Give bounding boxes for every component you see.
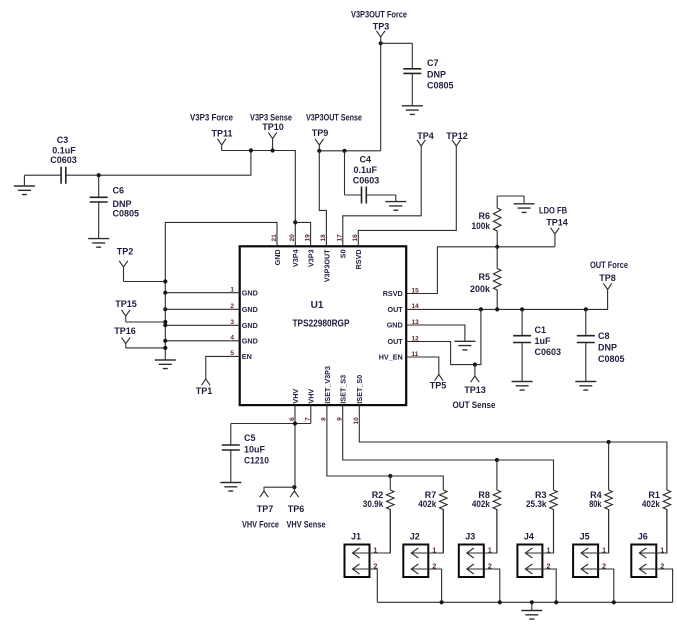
wire R4 top lead bbox=[608, 442, 610, 490]
svg-text:V3P3OUT Force: V3P3OUT Force bbox=[351, 10, 407, 20]
svg-text:TP14: TP14 bbox=[546, 218, 568, 228]
junction VHV/pin6 bbox=[293, 421, 297, 425]
svg-text:C0603: C0603 bbox=[535, 347, 562, 357]
J1 pin 2 arrow and wire to bottom bus bbox=[353, 564, 378, 602]
svg-text:TPS22980RGP: TPS22980RGP bbox=[293, 319, 350, 330]
svg-text:J1: J1 bbox=[351, 532, 361, 542]
wire C4 tap down bbox=[344, 151, 346, 195]
svg-text:S0: S0 bbox=[339, 249, 348, 258]
junction OUT/C1 bbox=[520, 307, 524, 311]
svg-text:OUT: OUT bbox=[388, 337, 404, 346]
svg-text:VHV: VHV bbox=[291, 389, 300, 404]
svg-text:V3P3: V3P3 bbox=[307, 249, 316, 267]
svg-text:C0805: C0805 bbox=[113, 209, 140, 219]
wire TP15 to bus bbox=[126, 321, 166, 323]
svg-text:C7: C7 bbox=[427, 58, 439, 68]
svg-text:2: 2 bbox=[374, 563, 378, 570]
svg-text:V3P4: V3P4 bbox=[291, 249, 300, 267]
resistor R3 25.3k bbox=[550, 490, 558, 553]
wire U1 pin9 ISET_S3 net bbox=[343, 405, 554, 490]
junction OUT/R5 bbox=[495, 307, 499, 311]
ground below C7 bbox=[402, 106, 423, 115]
svg-text:EN: EN bbox=[242, 352, 252, 361]
svg-text:C0805: C0805 bbox=[427, 81, 454, 91]
svg-text:402k: 402k bbox=[642, 499, 661, 509]
test point TP4 bbox=[417, 140, 426, 146]
wire U1 pin5 EN to TP1 bbox=[206, 356, 240, 379]
junction bottom bus x=556.2 bbox=[554, 600, 558, 604]
svg-text:ISET_V3P3: ISET_V3P3 bbox=[323, 366, 332, 404]
svg-text:TP13: TP13 bbox=[464, 385, 486, 395]
svg-text:C3: C3 bbox=[57, 135, 69, 145]
wire V3P3OUT rail bbox=[319, 150, 380, 152]
connector J1 body bbox=[345, 545, 370, 578]
svg-text:DNP: DNP bbox=[598, 343, 617, 353]
junction rail/C4 tap bbox=[342, 149, 346, 153]
junction ISET_V3P3/R2 bbox=[388, 474, 392, 478]
svg-text:OUT Sense: OUT Sense bbox=[453, 400, 496, 410]
resistor R5 200k bbox=[493, 247, 501, 310]
junction bus/TP16 bbox=[163, 346, 167, 350]
junction bus pin 4 bbox=[163, 339, 167, 343]
test point TP6 bbox=[290, 487, 299, 497]
svg-text:200k: 200k bbox=[470, 284, 491, 294]
wire TP3 to C7 bbox=[381, 42, 413, 44]
wire R2 top lead bbox=[389, 476, 391, 490]
wire TP4 to U1 pin17 S0 bbox=[343, 146, 421, 246]
svg-text:1: 1 bbox=[546, 547, 550, 554]
wire bus to U1 pin 3 bbox=[165, 324, 239, 326]
wire U1 pin6 VHV down bbox=[294, 405, 296, 487]
junction V3P3 vertical / pin19 branch bbox=[293, 220, 297, 224]
connector J5 body bbox=[573, 545, 598, 578]
wire U1 pin7 VHV down bbox=[310, 405, 312, 423]
junction OUT/TP13 branch bbox=[479, 307, 483, 311]
wire TP3 vertical to V3P3OUT rail bbox=[380, 43, 382, 151]
wire bus to U1 pin 4 bbox=[165, 340, 239, 342]
svg-text:402k: 402k bbox=[418, 499, 437, 509]
svg-text:0.1uF: 0.1uF bbox=[354, 165, 378, 175]
svg-text:TP4: TP4 bbox=[417, 131, 434, 141]
op-amp U1 body (TPS22980RGP load switch) bbox=[240, 246, 407, 405]
svg-text:10uF: 10uF bbox=[244, 444, 266, 454]
svg-text:C0603: C0603 bbox=[50, 155, 77, 165]
wire U1 pin10 ISET_S0 net bbox=[359, 405, 667, 490]
junction bus pin 3 bbox=[163, 323, 167, 327]
test point TP11 bbox=[217, 139, 226, 151]
svg-text:TP15: TP15 bbox=[115, 299, 137, 309]
svg-text:OUT: OUT bbox=[388, 305, 404, 314]
svg-text:2: 2 bbox=[546, 563, 550, 570]
wire OUT rail from U1 pin14 bbox=[406, 295, 607, 310]
svg-text:VHV Force: VHV Force bbox=[242, 519, 279, 529]
svg-text:C0603: C0603 bbox=[353, 175, 380, 185]
wire U1 pin21 GND to left ground bus bbox=[165, 222, 277, 360]
junction bottom bus x=531.8 bbox=[530, 600, 534, 604]
wire U1 pin8 ISET_V3P3 net bbox=[327, 405, 443, 490]
wire U1 pin12 OUT sense loop bbox=[406, 309, 481, 364]
svg-text:TP3: TP3 bbox=[373, 22, 390, 32]
svg-text:1: 1 bbox=[660, 547, 664, 554]
J5 pin 1 arrow and wire to resistor bbox=[581, 510, 609, 559]
wire TP16 to bus bbox=[126, 347, 166, 349]
svg-text:GND: GND bbox=[242, 321, 258, 330]
ground at C4 bbox=[385, 195, 406, 210]
ground below C6 bbox=[88, 239, 109, 248]
svg-text:1: 1 bbox=[602, 547, 606, 554]
junction V3P3 rail / TP10 bbox=[271, 148, 275, 152]
svg-text:V3P3OUT Sense: V3P3OUT Sense bbox=[306, 113, 362, 123]
junction TP6/TP7 bbox=[292, 485, 296, 489]
svg-text:1uF: 1uF bbox=[535, 336, 552, 346]
resistor R6 100k bbox=[493, 196, 501, 247]
svg-text:C0805: C0805 bbox=[598, 354, 625, 364]
wire U1 pin11 HV_EN to TP5 bbox=[406, 357, 439, 375]
capacitor C7 (DNP) bbox=[403, 43, 421, 106]
test point TP13 bbox=[471, 365, 480, 383]
ground at R6 top bbox=[514, 196, 535, 212]
J1 pin 1 arrow and wire to resistor bbox=[353, 510, 391, 559]
test point TP8 bbox=[603, 283, 612, 294]
connector J6 body bbox=[631, 545, 656, 578]
svg-text:C1: C1 bbox=[535, 325, 547, 335]
wire branch to U1 pin 19 bbox=[295, 222, 310, 246]
svg-text:GND: GND bbox=[387, 321, 403, 330]
J5 pin 2 arrow and wire to bottom bus bbox=[581, 564, 614, 602]
junction ISET_S0/R4 bbox=[607, 440, 611, 444]
test point TP10 bbox=[268, 132, 277, 150]
wire V3P3 rail TP11-TP10 to pin20 drop bbox=[222, 151, 296, 247]
svg-text:2: 2 bbox=[432, 563, 436, 570]
junction bus pin 1 bbox=[163, 291, 167, 295]
resistor R2 30.9k bbox=[387, 490, 395, 553]
wire V3P3 net C3 to junction bbox=[99, 151, 251, 176]
svg-text:TP9: TP9 bbox=[312, 128, 329, 138]
capacitor C4 bbox=[345, 187, 396, 204]
junction TP13 tap bbox=[473, 363, 477, 367]
capacitor C3 bbox=[24, 167, 98, 184]
test point TP16 bbox=[122, 337, 131, 348]
capacitor C5 10uF bbox=[222, 424, 240, 483]
ground at U1 pin13 bbox=[454, 341, 475, 350]
wire bus to U1 pin 2 bbox=[165, 308, 239, 310]
ground at left bus bottom bbox=[155, 360, 176, 369]
wire bus to U1 pin 1 bbox=[165, 292, 239, 294]
svg-text:GND: GND bbox=[242, 305, 258, 314]
capacitor C1 1uF bbox=[513, 309, 531, 381]
svg-text:1: 1 bbox=[488, 547, 492, 554]
svg-text:RSVD: RSVD bbox=[354, 249, 363, 269]
junction bottom bus x=441.6 bbox=[440, 600, 444, 604]
svg-text:J4: J4 bbox=[524, 532, 534, 542]
svg-text:402k: 402k bbox=[472, 499, 491, 509]
svg-text:V3P3 Sense: V3P3 Sense bbox=[250, 113, 292, 123]
junction bus/TP2 bbox=[163, 279, 167, 283]
connector J4 body bbox=[517, 545, 542, 578]
J3 pin 1 arrow and wire to resistor bbox=[467, 510, 497, 559]
junction LDO FB node bbox=[495, 245, 499, 249]
svg-text:J6: J6 bbox=[638, 532, 648, 542]
svg-text:100k: 100k bbox=[472, 221, 491, 231]
svg-text:C1210: C1210 bbox=[244, 456, 269, 466]
test point TP1 bbox=[202, 379, 211, 385]
test point TP12 bbox=[452, 140, 461, 146]
svg-text:C6: C6 bbox=[113, 186, 125, 196]
svg-text:TP16: TP16 bbox=[114, 326, 136, 336]
svg-text:ISET_S3: ISET_S3 bbox=[339, 375, 348, 404]
wire TP12 to U1 pin16 RSVD bbox=[358, 146, 456, 246]
svg-text:GND: GND bbox=[273, 249, 282, 265]
svg-text:C8: C8 bbox=[598, 331, 610, 341]
wire TP14 to node bbox=[497, 246, 555, 248]
svg-text:C5: C5 bbox=[244, 433, 256, 443]
svg-text:VHV Sense: VHV Sense bbox=[287, 519, 326, 529]
junction TP3/C7 bbox=[379, 41, 383, 45]
junction ISET_S3/R8 bbox=[495, 458, 499, 462]
svg-text:0.1uF: 0.1uF bbox=[52, 145, 76, 155]
J4 pin 1 arrow and wire to resistor bbox=[525, 510, 553, 559]
junction bus/TP15 bbox=[163, 320, 167, 324]
svg-text:80k: 80k bbox=[589, 499, 602, 509]
svg-text:TP11: TP11 bbox=[211, 129, 232, 139]
test point TP3 bbox=[376, 31, 385, 44]
svg-text:1: 1 bbox=[374, 547, 378, 554]
J6 pin 1 arrow and wire to resistor bbox=[639, 510, 667, 559]
wire TP9 down to U1 pin18 bbox=[319, 151, 326, 247]
wire U1 pin15 RSVD to LDO FB node bbox=[406, 247, 497, 294]
svg-text:DNP: DNP bbox=[427, 70, 446, 80]
svg-text:1: 1 bbox=[432, 547, 436, 554]
svg-text:TP5: TP5 bbox=[430, 381, 447, 391]
svg-text:25.3k: 25.3k bbox=[526, 499, 547, 509]
svg-text:HV_EN: HV_EN bbox=[379, 353, 403, 362]
svg-text:V3P3OUT: V3P3OUT bbox=[322, 249, 331, 282]
wire TP2 to bus bbox=[124, 281, 166, 283]
svg-text:C4: C4 bbox=[360, 155, 372, 165]
test point TP2 bbox=[119, 261, 128, 282]
svg-text:RSVD: RSVD bbox=[383, 289, 403, 298]
svg-text:2: 2 bbox=[602, 563, 606, 570]
junction V3P3 rail / C3 branch bbox=[249, 148, 253, 152]
test point TP9 bbox=[315, 139, 324, 151]
J4 pin 2 arrow and wire to bottom bus bbox=[525, 564, 556, 602]
junction OUT/C8 bbox=[584, 307, 588, 311]
test point TP5 bbox=[435, 375, 444, 381]
svg-text:OUT Force: OUT Force bbox=[590, 260, 628, 270]
svg-text:TP2: TP2 bbox=[117, 246, 134, 256]
capacitor C6 (DNP) bbox=[90, 175, 108, 238]
svg-text:2: 2 bbox=[660, 563, 664, 570]
svg-text:DNP: DNP bbox=[113, 199, 132, 209]
svg-text:V3P3 Force: V3P3 Force bbox=[190, 113, 233, 123]
wire R8 top lead bbox=[496, 460, 498, 490]
capacitor C8 (DNP) bbox=[577, 309, 595, 381]
wire VHV rail to C5 bbox=[231, 423, 311, 425]
svg-text:VHV: VHV bbox=[307, 389, 316, 404]
J2 pin 2 arrow and wire to bottom bus bbox=[411, 564, 441, 602]
wire U1 pin13 GND bbox=[406, 325, 465, 341]
svg-text:GND: GND bbox=[242, 288, 258, 297]
J6 pin 2 arrow and wire to bottom bus bbox=[639, 564, 672, 602]
svg-text:TP1: TP1 bbox=[196, 386, 213, 396]
wire bottom ground bus bbox=[377, 601, 672, 603]
resistor R1 402k bbox=[663, 490, 671, 553]
test point TP7 bbox=[260, 491, 269, 497]
resistor R4 80k bbox=[605, 490, 613, 553]
J2 pin 1 arrow and wire to resistor bbox=[411, 510, 443, 559]
svg-text:ISET_S0: ISET_S0 bbox=[355, 375, 364, 404]
resistor R8 402k bbox=[493, 490, 501, 553]
ground below C1 bbox=[512, 382, 533, 391]
test point TP14 bbox=[551, 228, 560, 247]
test point TP15 bbox=[122, 310, 131, 322]
connector J3 body bbox=[459, 545, 484, 578]
svg-text:TP7: TP7 bbox=[257, 504, 274, 514]
ground at C3 left bbox=[14, 175, 35, 194]
ground below C8 bbox=[575, 382, 596, 391]
svg-text:TP8: TP8 bbox=[599, 273, 616, 283]
svg-text:LDO FB: LDO FB bbox=[539, 206, 567, 216]
svg-text:J5: J5 bbox=[580, 532, 590, 542]
svg-text:2: 2 bbox=[488, 563, 492, 570]
svg-text:TP6: TP6 bbox=[288, 504, 305, 514]
junction bottom bus x=613.8 bbox=[612, 600, 616, 604]
svg-text:GND: GND bbox=[242, 336, 258, 345]
J3 pin 2 arrow and wire to bottom bus bbox=[467, 564, 500, 602]
junction bus pin 2 bbox=[163, 307, 167, 311]
svg-text:U1: U1 bbox=[311, 300, 324, 311]
svg-text:R6: R6 bbox=[478, 211, 490, 221]
svg-text:R5: R5 bbox=[478, 272, 490, 282]
ground at bottom bus bbox=[521, 602, 542, 619]
svg-text:TP10: TP10 bbox=[262, 122, 284, 132]
svg-text:J3: J3 bbox=[465, 532, 475, 542]
connector J2 body bbox=[403, 545, 428, 578]
wire R6 top to ground bbox=[497, 195, 524, 197]
wire TP7 branch bbox=[264, 487, 294, 491]
ground below C5 bbox=[220, 483, 241, 492]
svg-text:J2: J2 bbox=[410, 532, 420, 542]
resistor R7 402k bbox=[440, 490, 448, 553]
svg-text:30.9k: 30.9k bbox=[363, 499, 384, 509]
junction rail/TP9-pin18 bbox=[317, 149, 321, 153]
junction C6 tap bbox=[97, 173, 101, 177]
junction bottom bus x=499.8 bbox=[498, 600, 502, 604]
svg-text:TP12: TP12 bbox=[446, 131, 468, 141]
